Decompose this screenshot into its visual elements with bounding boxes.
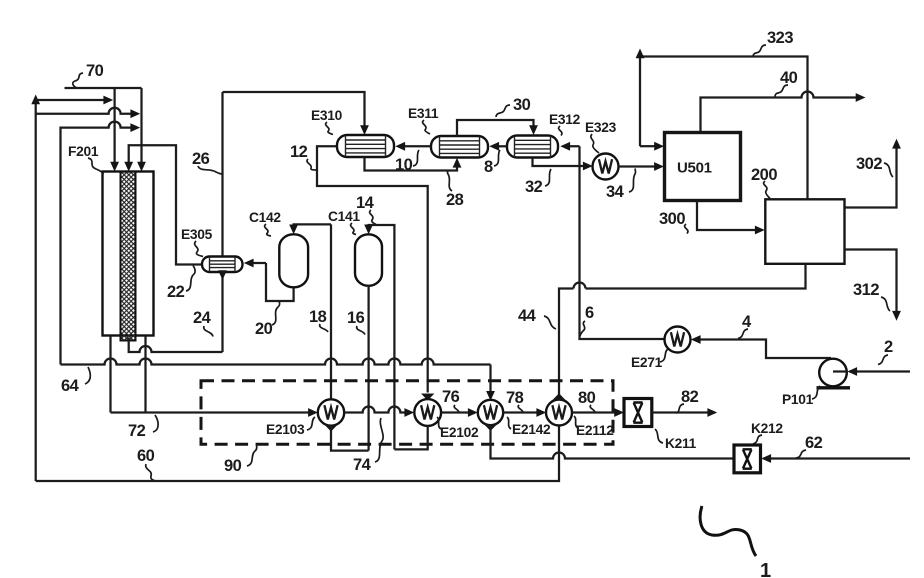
label 62 [805,434,823,452]
expander K211 [624,399,652,427]
svg-text:P101: P101 [782,392,814,407]
leader 76 [454,405,459,412]
leader 12 [307,159,316,170]
label K211 [665,436,697,451]
label E2112 [576,423,614,438]
leader 302 [884,163,893,177]
svg-text:E2142: E2142 [512,422,551,437]
svg-text:14: 14 [356,194,375,212]
arrow 12 into E2102 top [421,394,434,401]
svg-text:40: 40 [780,69,798,87]
arrow E305 bottom drain [218,270,227,280]
svg-text:12: 12 [290,143,308,161]
label E271 [631,355,663,370]
leader 200 [764,181,770,199]
furnace F201 [103,172,154,336]
svg-text:E2103: E2103 [266,422,305,437]
exchanger E2142 [478,400,503,425]
label 18 [309,308,327,326]
svg-text:22: 22 [167,283,185,301]
label 10 [395,156,413,174]
wire 6 riser to junction [580,166,665,339]
label 24 [193,309,212,327]
label 30 [513,96,531,114]
wire 26 top header to E310 [223,92,369,135]
label 16 [347,309,365,327]
svg-text:32: 32 [525,178,543,196]
svg-text:K212: K212 [751,421,783,436]
svg-text:70: 70 [86,62,104,80]
label K212 [751,421,783,436]
label 26 [192,150,210,168]
wire 12 loop E310 to E2102 [317,146,434,400]
label 78 [506,389,524,407]
wire into furnace y100 [36,96,114,105]
label 64 [61,377,80,395]
svg-text:80: 80 [578,389,596,407]
leader 44 [544,316,556,329]
wire furnace outlet A [109,336,111,413]
svg-text:90: 90 [224,457,242,475]
vessel C142 [279,234,308,287]
exchanger E2102 [414,399,441,426]
leader C141 [351,223,356,235]
wire E2102 bottoms U [394,426,427,450]
svg-text:24: 24 [193,309,212,327]
leader E311 [423,120,430,134]
label 76 [442,388,460,406]
svg-text:F201: F201 [68,144,99,159]
wire E2103 bottoms U to 16 [331,426,369,451]
leader E310 [326,122,333,135]
svg-text:60: 60 [137,447,155,465]
wire 44 return from unit 200 [36,264,806,481]
svg-text:302: 302 [856,155,882,173]
leader 90 [247,446,257,467]
wire C142 feed [289,224,331,234]
leader E2102 [437,417,441,429]
leader 16 [357,326,365,335]
leader 78 [518,405,523,412]
label 32 [525,178,543,196]
label 14 [356,194,375,212]
arrow 44 up through E2112 [553,393,566,400]
label 302 [856,155,882,173]
svg-text:E312: E312 [549,112,581,127]
exchanger E2112 [546,400,572,426]
label 28 [446,191,464,209]
wire manifold 64 with hops [61,359,491,365]
leader 32 [545,169,551,186]
svg-text:C142: C142 [249,210,281,225]
wire 312 product [845,250,901,321]
label 34 [606,183,625,201]
unit 200 [765,199,844,263]
svg-text:300: 300 [659,210,685,228]
wire y113 with hop [36,108,141,118]
leader 60 [146,464,156,481]
unit U501 [665,133,741,201]
leader E271 [660,349,668,362]
label 44 [518,307,537,325]
exchanger E323 [593,154,619,180]
wire 16 C141 bottoms [367,286,369,451]
wire furnace feed B [137,88,146,172]
wire 64 riser and y127 line with hop [61,122,141,365]
wire E2103 to E2102 with hops [344,407,414,417]
leader 300 [685,224,688,234]
wire 302 product [845,139,901,208]
label C142 [249,210,281,225]
wire E2142 bottoms to K212 with hop [491,425,735,458]
svg-text:E2112: E2112 [576,423,614,438]
leader K212 [753,435,762,444]
wire feed into E312 right [560,142,579,166]
svg-text:4: 4 [742,313,752,331]
svg-text:6: 6 [585,304,594,322]
leader 24 [204,326,213,337]
wire furnace outlet B [144,336,146,413]
wire 10 E311 to E310 [395,142,431,151]
exchanger E271 [665,327,691,353]
wire furnace feed A [110,88,119,172]
label P101 [782,392,814,407]
leader E2112 [574,416,578,428]
label 70 [86,62,104,80]
label E311 [408,106,439,121]
wire 72 furnace bottoms line [111,408,318,417]
wire E305 outlet to tube top [124,145,202,264]
label 40 [780,69,798,87]
svg-text:30: 30 [513,96,531,114]
leader 323 [753,45,766,57]
leader 72 [153,415,158,432]
arrow into E271 right [691,335,831,358]
leader F201 [88,158,104,174]
leader E323 [591,134,599,153]
label E305 [181,227,213,242]
svg-text:E305: E305 [181,227,213,242]
label E310 [311,108,343,123]
wire 2 feed into P101 [833,367,910,376]
label 80 [578,389,596,407]
arrow into E305 right [244,259,266,268]
wire 323 loop top [636,49,808,200]
leader 34 [629,169,636,193]
wire 32 E312 bottoms [533,158,580,167]
leader E305 [195,241,203,257]
leader 64 [85,367,90,384]
label E2103 [266,422,305,437]
wire manifold drop into E2142 [486,365,495,401]
leader 6 [580,321,585,336]
label 12 [290,143,308,161]
exchanger E2103 [318,399,344,425]
leader 74 [375,418,383,462]
leader 4 [738,329,748,339]
leader 20 [272,302,280,326]
pump P101 [817,359,851,388]
svg-text:18: 18 [309,308,327,326]
leader 14 [370,210,376,225]
furnace tube hatched [121,172,136,341]
wire 300 U501 to unit 200 [697,201,765,235]
svg-text:E271: E271 [631,355,663,370]
label 90 [224,457,242,475]
svg-text:20: 20 [255,320,273,338]
svg-text:34: 34 [606,183,625,201]
label 200 [751,166,777,184]
label 6 [585,304,594,322]
wire 30 E311 to E312 [457,120,538,137]
arrow 323 into U501 [640,142,664,151]
svg-text:44: 44 [518,307,537,325]
wire 76 E2102 to E2142 [441,408,478,417]
vessel C141 [355,234,382,285]
svg-text:28: 28 [446,191,464,209]
wire 82 product [652,408,717,417]
svg-text:72: 72 [128,422,146,440]
expander K212 [734,445,761,473]
label 8 [484,158,493,176]
heat exchanger E310 [337,135,394,157]
svg-text:E310: E310 [311,108,343,123]
wire 62 feed into K212 [761,454,910,463]
wire 80 E2112 to K211 [572,408,624,417]
label 323 [767,29,793,47]
svg-text:312: 312 [853,281,879,299]
label 2 [884,338,893,356]
label 72 [128,422,146,440]
svg-text:1: 1 [760,560,771,578]
svg-text:76: 76 [442,388,460,406]
leader E2142 [507,417,511,429]
leader 62 [796,450,806,458]
leader E2103 [307,417,315,430]
svg-text:E323: E323 [585,120,617,135]
wire 40 offgas [701,92,866,133]
label E2142 [512,422,551,437]
label 74 [353,456,372,474]
leader 18 [320,324,328,332]
leader E312 [559,126,562,136]
label 4 [742,313,752,331]
svg-text:74: 74 [353,456,372,474]
wire 78 E2142 to E2112 [503,408,546,417]
figure number 1 [760,560,771,578]
svg-text:8: 8 [484,158,493,176]
svg-text:64: 64 [61,377,80,395]
svg-text:323: 323 [767,29,793,47]
svg-text:K211: K211 [665,436,697,451]
leader 2 [878,355,888,365]
arrow E2142 down outlet [484,424,497,431]
heat exchanger E312 [507,136,558,158]
label 60 [137,447,155,465]
wire into E323 [580,162,593,171]
leader 82 [676,404,684,413]
svg-text:E311: E311 [408,106,439,121]
svg-text:E2102: E2102 [440,425,479,440]
heat exchanger E305 [202,257,243,273]
wire 28 E310 to E311 [365,157,462,171]
svg-text:26: 26 [192,150,210,168]
leader 30 [496,105,510,117]
leader C142 [265,224,271,236]
label 300 [659,210,685,228]
wire 18 vertical [330,224,332,400]
leader 8 [494,150,500,166]
svg-text:U501: U501 [677,160,712,177]
label E312 [549,112,581,127]
leader 312 [881,297,890,311]
leader K211 [655,429,663,443]
svg-text:78: 78 [506,389,524,407]
leader P101 [812,386,820,399]
label E323 [585,120,617,135]
wire recycle left border 60-loop [31,95,40,482]
leader 40 [775,85,788,97]
leader 26 [198,166,223,174]
heat exchanger E311 [431,136,488,158]
wire 26 vertical through E305 [221,92,223,352]
wire 8 E312 to E311 [489,142,507,151]
wire tube bottom to 26 with hop [129,338,223,353]
label F201 [68,144,99,159]
figure leader curve [700,506,756,556]
arrow E2103 down outlet [325,425,338,432]
svg-text:62: 62 [805,434,823,452]
battery limit dashed box 90 [201,381,613,445]
leader 80 [590,405,595,412]
svg-text:16: 16 [347,309,365,327]
wire 70 top header [65,87,142,89]
label E2102 [440,425,479,440]
leader 70 [73,73,83,88]
leader 10 [413,150,419,166]
leader 22 [186,266,195,292]
wire 20 C142 bottoms to E305 [266,263,294,301]
wire E323 to U501 [619,162,664,171]
label C141 [328,209,360,224]
label 20 [255,320,273,338]
label 312 [853,281,879,299]
label 22 [167,283,185,301]
label 82 [681,388,699,406]
wire C141 feed from E2102 loop [364,225,394,450]
svg-text:2: 2 [884,338,893,356]
leader 28 [447,171,452,192]
